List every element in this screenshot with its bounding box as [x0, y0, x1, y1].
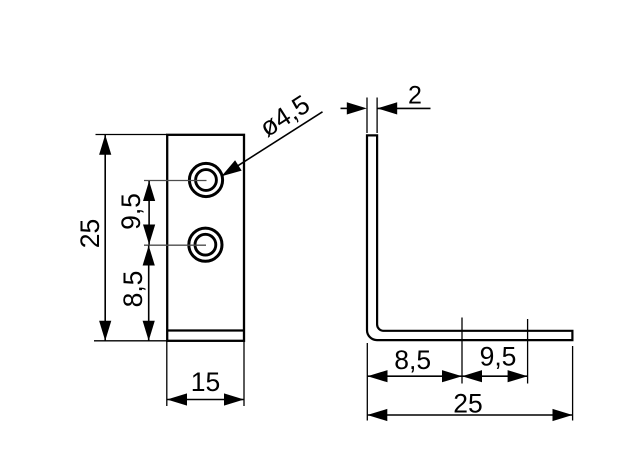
- svg-text:25: 25: [75, 219, 105, 248]
- svg-text:15: 15: [191, 367, 220, 397]
- svg-text:9,5: 9,5: [480, 342, 517, 372]
- svg-text:2: 2: [408, 82, 422, 110]
- svg-text:8,5: 8,5: [394, 345, 431, 375]
- svg-text:8,5: 8,5: [118, 271, 148, 308]
- svg-text:9,5: 9,5: [116, 193, 146, 230]
- svg-text:25: 25: [453, 389, 482, 419]
